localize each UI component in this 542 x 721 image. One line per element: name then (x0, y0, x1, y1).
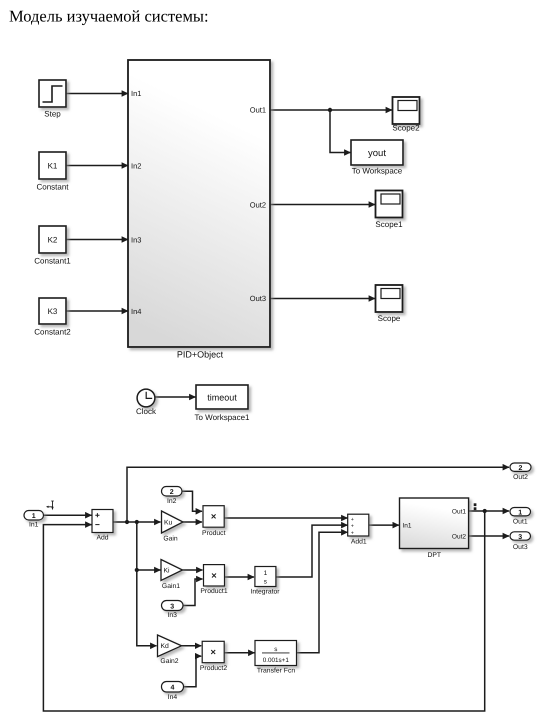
svg-text:Clock: Clock (136, 407, 157, 416)
svg-text:Step: Step (44, 110, 61, 119)
svg-text:s: s (274, 646, 277, 653)
svg-text:Add: Add (96, 535, 108, 542)
svg-text:Product2: Product2 (200, 665, 227, 672)
svg-text:Out3: Out3 (250, 294, 266, 303)
svg-text:1: 1 (518, 510, 522, 517)
svg-text:Gain1: Gain1 (162, 583, 180, 590)
svg-text:3: 3 (170, 603, 174, 610)
svg-text:To Workspace1: To Workspace1 (195, 413, 251, 422)
svg-text:In4: In4 (168, 694, 178, 701)
svg-text:Scope2: Scope2 (392, 124, 420, 133)
svg-text:Out2: Out2 (452, 533, 466, 540)
svg-text:Out1: Out1 (452, 508, 466, 515)
svg-text:1: 1 (32, 513, 36, 520)
svg-text:Integrator: Integrator (250, 588, 280, 595)
svg-text:+: + (351, 530, 354, 536)
svg-text:Модель изучаемой системы:: Модель изучаемой системы: (9, 7, 209, 26)
svg-text:PID+Object: PID+Object (177, 350, 224, 360)
svg-text:In1: In1 (403, 522, 412, 529)
svg-text:3: 3 (518, 534, 522, 541)
svg-text:Ku: Ku (164, 519, 173, 526)
svg-text:+: + (351, 524, 354, 530)
svg-text:In2: In2 (167, 498, 177, 505)
svg-text:Out2: Out2 (513, 474, 528, 481)
svg-text:4: 4 (171, 685, 175, 692)
svg-text:Gain2: Gain2 (160, 658, 178, 665)
svg-text:In4: In4 (131, 307, 141, 316)
svg-text:Constant1: Constant1 (34, 257, 71, 266)
svg-text:yout: yout (368, 148, 386, 159)
svg-text:Out2: Out2 (250, 201, 266, 210)
svg-text:2: 2 (170, 489, 174, 496)
svg-text:In1: In1 (131, 89, 141, 98)
svg-text:2: 2 (519, 465, 523, 472)
svg-text:To Workspace: To Workspace (352, 167, 403, 176)
svg-text:0.001s+1: 0.001s+1 (263, 657, 290, 664)
svg-text:K1: K1 (48, 162, 58, 171)
svg-text:Scope: Scope (378, 314, 401, 323)
svg-text:Add1: Add1 (351, 539, 367, 546)
svg-text:Out1: Out1 (250, 106, 266, 115)
svg-text:Scope1: Scope1 (375, 220, 403, 229)
svg-text:Product: Product (202, 530, 226, 537)
svg-text:Out1: Out1 (513, 518, 528, 525)
svg-text:In2: In2 (131, 162, 141, 171)
svg-text:K2: K2 (48, 236, 58, 245)
svg-text:Constant2: Constant2 (34, 328, 71, 337)
svg-text:In1: In1 (29, 522, 39, 529)
svg-text:1: 1 (264, 570, 268, 577)
svg-text:Gain: Gain (163, 536, 178, 543)
svg-text:In3: In3 (131, 236, 141, 245)
svg-text:Out3: Out3 (513, 544, 528, 551)
svg-text:Transfer Fcn: Transfer Fcn (257, 667, 295, 674)
svg-text:DPT: DPT (427, 552, 441, 559)
svg-text:Kd: Kd (161, 643, 170, 650)
svg-text:In3: In3 (168, 612, 178, 619)
svg-text:Product1: Product1 (200, 588, 227, 595)
svg-text:Constant: Constant (36, 183, 69, 192)
svg-text:Ki: Ki (164, 568, 171, 575)
svg-text:K3: K3 (48, 307, 58, 316)
svg-text:timeout: timeout (207, 393, 237, 403)
svg-text:+: + (351, 517, 354, 523)
